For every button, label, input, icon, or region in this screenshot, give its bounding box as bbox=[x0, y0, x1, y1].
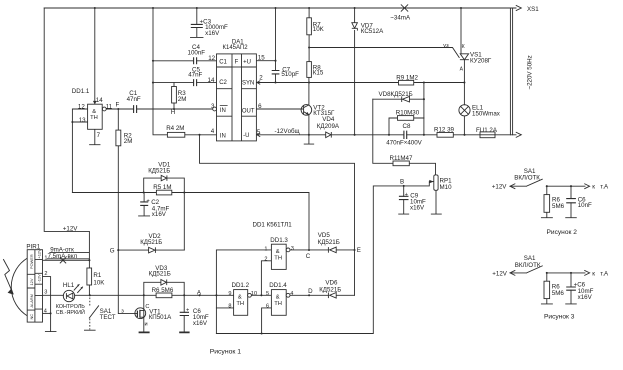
svg-text:R12 39: R12 39 bbox=[434, 127, 455, 134]
svg-text:14: 14 bbox=[208, 77, 215, 84]
svg-text:ТЕСТ: ТЕСТ bbox=[100, 314, 116, 321]
svg-text:4: 4 bbox=[211, 128, 215, 135]
svg-text:E: E bbox=[357, 247, 361, 254]
svg-text:КУ208Г: КУ208Г bbox=[470, 58, 492, 65]
svg-text:DD1 К561ТЛ1: DD1 К561ТЛ1 bbox=[253, 222, 293, 229]
svg-text:C2: C2 bbox=[219, 80, 227, 86]
svg-text:8: 8 bbox=[228, 304, 231, 310]
svg-text:F: F bbox=[235, 59, 239, 65]
svg-text:HL1: HL1 bbox=[63, 282, 75, 289]
svg-text:6: 6 bbox=[266, 304, 269, 310]
svg-text:12: 12 bbox=[208, 55, 215, 62]
svg-text:D: D bbox=[308, 288, 313, 295]
svg-text:R1: R1 bbox=[93, 272, 101, 279]
svg-text:x16V: x16V bbox=[410, 204, 425, 211]
svg-text:7: 7 bbox=[97, 132, 101, 139]
svg-text:КД521Б: КД521Б bbox=[148, 167, 170, 174]
svg-text:R4 2М: R4 2М bbox=[166, 125, 184, 132]
svg-text:10K: 10K bbox=[313, 26, 325, 33]
svg-text:4: 4 bbox=[290, 291, 293, 297]
svg-text:6: 6 bbox=[258, 103, 262, 110]
svg-text:5М6: 5М6 bbox=[552, 203, 565, 210]
svg-text:КС512А: КС512А bbox=[361, 28, 384, 35]
svg-text:+U: +U bbox=[243, 59, 251, 65]
svg-text:&: & bbox=[276, 249, 280, 255]
svg-text:B: B bbox=[400, 178, 404, 185]
svg-text:КД521Б: КД521Б bbox=[319, 286, 341, 293]
svg-text:14: 14 bbox=[96, 97, 103, 104]
svg-text:&: & bbox=[238, 294, 242, 300]
svg-text:+12V: +12V bbox=[492, 270, 507, 277]
svg-text:G: G bbox=[110, 248, 115, 255]
svg-text:з: з bbox=[121, 308, 124, 314]
svg-text:КД521Б: КД521Б bbox=[318, 239, 340, 246]
svg-text:12: 12 bbox=[78, 104, 85, 111]
svg-text:FU1 2A: FU1 2A bbox=[476, 127, 498, 134]
svg-text:R6 5М6: R6 5М6 bbox=[152, 287, 174, 294]
svg-text:2М: 2М bbox=[124, 138, 133, 145]
svg-text:4: 4 bbox=[44, 309, 47, 315]
svg-text:К145АП2: К145АП2 bbox=[223, 45, 249, 51]
svg-text:2: 2 bbox=[259, 75, 263, 82]
svg-text:+12V: +12V bbox=[37, 249, 42, 259]
svg-text:КП501А: КП501А bbox=[149, 314, 172, 321]
svg-text:R5 1М: R5 1М bbox=[153, 184, 171, 191]
svg-text:H: H bbox=[171, 109, 175, 116]
svg-text:DD1.3: DD1.3 bbox=[270, 237, 288, 244]
svg-text:к: к bbox=[592, 184, 595, 191]
svg-text:x16V: x16V bbox=[152, 211, 167, 218]
svg-text:3: 3 bbox=[211, 103, 215, 110]
svg-text:47nF: 47nF bbox=[188, 72, 202, 79]
svg-text:-U: -U bbox=[243, 133, 249, 139]
svg-text:ALARM: ALARM bbox=[29, 294, 34, 307]
svg-text:XS1: XS1 bbox=[527, 6, 539, 13]
svg-text:ВКЛ/ОТК: ВКЛ/ОТК bbox=[515, 262, 541, 269]
svg-text:+: + bbox=[186, 307, 189, 313]
svg-text:1: 1 bbox=[264, 246, 267, 252]
svg-text:47nF: 47nF bbox=[127, 96, 141, 103]
svg-text:5: 5 bbox=[266, 291, 269, 297]
svg-text:Рисунок 1: Рисунок 1 bbox=[210, 349, 242, 356]
svg-text:КД521Б: КД521Б bbox=[140, 239, 162, 246]
svg-text:vз: vз bbox=[443, 43, 449, 49]
svg-text:C: C bbox=[306, 253, 311, 260]
svg-text:R11М47: R11М47 bbox=[390, 155, 413, 162]
svg-text:R9 1М2: R9 1М2 bbox=[396, 75, 418, 82]
svg-text:ТН: ТН bbox=[274, 256, 282, 262]
svg-text:+12V: +12V bbox=[492, 184, 507, 191]
svg-text:10: 10 bbox=[251, 291, 257, 297]
svg-text:VD4: VD4 bbox=[322, 116, 335, 123]
svg-text:470nF×400V: 470nF×400V bbox=[386, 140, 422, 147]
svg-text:100nF: 100nF bbox=[188, 50, 206, 57]
svg-text:КД209А: КД209А bbox=[317, 123, 340, 130]
svg-text:SYN: SYN bbox=[242, 81, 254, 87]
svg-text:10nF: 10nF bbox=[578, 202, 592, 209]
svg-text:ТН: ТН bbox=[236, 301, 244, 307]
svg-text:~34mA: ~34mA bbox=[390, 14, 411, 21]
svg-text:13: 13 bbox=[79, 117, 86, 124]
svg-text:3: 3 bbox=[44, 290, 47, 296]
svg-text:C1: C1 bbox=[219, 59, 227, 65]
svg-text:DD1.4: DD1.4 bbox=[269, 282, 287, 289]
svg-text:5М6: 5М6 bbox=[552, 290, 565, 297]
svg-text:510pF: 510pF bbox=[281, 71, 299, 78]
svg-text:2М: 2М bbox=[178, 96, 187, 103]
svg-text:КД521Б: КД521Б bbox=[149, 270, 171, 277]
svg-text:Рисунок 3: Рисунок 3 bbox=[544, 314, 575, 321]
svg-text:IN: IN bbox=[220, 108, 226, 114]
svg-text:x16V: x16V bbox=[578, 294, 593, 301]
svg-text:-12V: -12V bbox=[37, 274, 42, 283]
svg-text:15: 15 bbox=[258, 55, 265, 62]
svg-text:т.А: т.А bbox=[600, 184, 609, 191]
svg-text:x16V: x16V bbox=[205, 30, 220, 37]
svg-text:11: 11 bbox=[106, 103, 113, 110]
svg-text:и: и bbox=[145, 322, 148, 328]
svg-text:POWER: POWER bbox=[29, 254, 34, 269]
svg-text:к: к bbox=[592, 270, 595, 277]
svg-text:2: 2 bbox=[44, 271, 47, 277]
svg-text:R10М30: R10М30 bbox=[396, 109, 420, 116]
svg-text:ТН: ТН bbox=[274, 301, 282, 307]
svg-text:7,5mA-вкл: 7,5mA-вкл bbox=[48, 253, 78, 260]
svg-text:ТН: ТН bbox=[90, 115, 98, 121]
svg-text:OUT: OUT bbox=[242, 108, 255, 114]
svg-text:9: 9 bbox=[228, 291, 231, 297]
svg-text:2: 2 bbox=[264, 256, 267, 262]
svg-text:IN: IN bbox=[220, 133, 226, 139]
svg-text:DD1.1: DD1.1 bbox=[72, 88, 90, 95]
svg-text:К: К bbox=[462, 44, 465, 50]
svg-text:x16V: x16V bbox=[193, 320, 208, 327]
svg-text:F: F bbox=[116, 101, 120, 108]
svg-text:&: & bbox=[276, 294, 280, 300]
svg-text:Рисунок 2: Рисунок 2 bbox=[547, 229, 578, 236]
svg-text:М10: М10 bbox=[440, 184, 453, 191]
svg-text:+12V: +12V bbox=[63, 225, 78, 232]
svg-text:СВ.-ЯРКИЙ: СВ.-ЯРКИЙ bbox=[56, 308, 85, 316]
svg-text:DD1.2: DD1.2 bbox=[232, 282, 250, 289]
svg-text:NC: NC bbox=[29, 314, 34, 320]
svg-text:1: 1 bbox=[44, 256, 47, 262]
svg-text:10K: 10K bbox=[93, 280, 105, 287]
svg-text:ВКЛ/ОТК: ВКЛ/ОТК bbox=[514, 175, 540, 182]
svg-text:150Wmax: 150Wmax bbox=[472, 110, 501, 117]
svg-text:К15: К15 bbox=[313, 69, 324, 76]
svg-text:&: & bbox=[92, 109, 96, 115]
svg-text:12V: 12V bbox=[29, 278, 34, 285]
svg-text:~220V 50Hz: ~220V 50Hz bbox=[527, 55, 534, 89]
svg-text:VD8КД521Б: VD8КД521Б bbox=[379, 91, 413, 98]
svg-text:-12Vобщ: -12Vобщ bbox=[275, 128, 300, 135]
svg-text:5: 5 bbox=[257, 129, 261, 136]
svg-text:т.А: т.А bbox=[600, 270, 609, 277]
svg-text:3: 3 bbox=[291, 246, 294, 252]
svg-text:C8: C8 bbox=[403, 123, 411, 130]
